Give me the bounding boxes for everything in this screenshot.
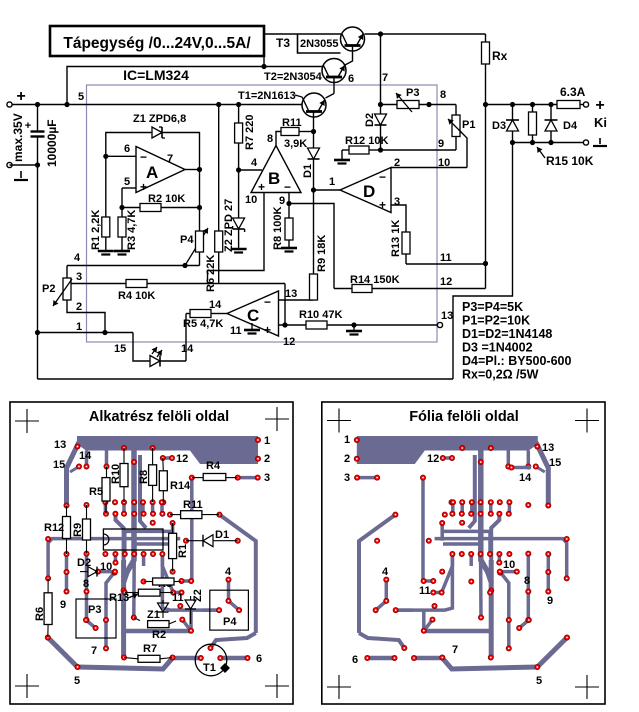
component R11: [170, 499, 219, 519]
right trace R9 bottom: [527, 554, 531, 620]
diode D2: [364, 102, 387, 150]
label 4 right: [382, 566, 389, 578]
component R13: [109, 589, 173, 604]
svg-text:+: +: [595, 97, 604, 114]
component R9: [72, 505, 91, 554]
left trace T1 right to pad6: [220, 656, 247, 661]
left trace mid cluster a: [104, 502, 108, 514]
svg-text:1: 1: [264, 435, 270, 447]
svg-text:1: 1: [76, 321, 82, 333]
left trace ic row link: [114, 554, 118, 563]
terminal 13: [437, 310, 453, 328]
transistor T3 2N3055: [341, 27, 365, 51]
svg-text:D1=D2=1N4148: D1=D2=1N4148: [462, 327, 552, 341]
potentiometer P1: [448, 105, 475, 151]
label 15 right: [549, 457, 561, 469]
right trace P4 left: [396, 608, 413, 612]
right trace pad15 link: [536, 467, 545, 473]
label pin 7: [167, 153, 173, 165]
label 10 right: [503, 559, 515, 571]
crosshair mark: [575, 409, 599, 433]
svg-text:−: −: [284, 180, 291, 194]
svg-text:8: 8: [267, 133, 273, 145]
label pin 5: [124, 176, 130, 188]
right board copper mirrored: [354, 436, 569, 670]
svg-text:R10 47K: R10 47K: [299, 309, 342, 321]
svg-text:T1: T1: [203, 662, 216, 674]
label 2 left: [264, 453, 270, 465]
svg-text:D2: D2: [364, 113, 376, 127]
component D1: [186, 529, 238, 547]
right trace pad12 link: [443, 456, 452, 460]
label 5 right: [536, 675, 542, 687]
left trace pad14 stub: [85, 451, 89, 467]
svg-text:14: 14: [79, 450, 92, 462]
label pin 14 pcb: [181, 343, 194, 355]
svg-text:15: 15: [114, 343, 126, 355]
label 12 right: [427, 453, 439, 465]
resistor R10 47K: [279, 309, 438, 335]
svg-text:A: A: [146, 163, 158, 182]
right trace bus slant to R12: [536, 442, 549, 506]
wire node5: [122, 188, 136, 208]
svg-text:R4 10K: R4 10K: [118, 290, 155, 302]
component Z2: [185, 589, 204, 624]
left trace Z1 column: [162, 554, 219, 610]
left trace mid cluster b: [122, 502, 126, 514]
wire output minus line: [510, 140, 584, 145]
svg-text:4: 4: [225, 566, 232, 578]
left trace R5 top stub: [105, 451, 109, 467]
label 5 left: [74, 675, 80, 687]
potentiometer P2: [42, 266, 72, 307]
left PCB board outline: [10, 402, 293, 704]
label pin 8: [267, 133, 273, 145]
svg-text:2: 2: [76, 301, 82, 313]
wire T1 emitter to T2 base: [326, 94, 335, 99]
svg-text:1: 1: [329, 176, 335, 188]
svg-text:2: 2: [264, 453, 270, 465]
component Z1: [147, 600, 169, 621]
left trace 11 pads: [173, 591, 181, 595]
right trace R2 right col: [424, 620, 433, 631]
label 1 right: [344, 434, 350, 446]
svg-text:3: 3: [394, 196, 400, 208]
label 1 left: [264, 435, 270, 447]
svg-text:15: 15: [549, 457, 561, 469]
op-amp A: [136, 147, 185, 195]
wire T3 emitter to Rx rail: [365, 33, 486, 35]
node 5 riser: [64, 102, 69, 107]
right trace R11 diagonal: [359, 515, 395, 633]
left trace top bus bar: [77, 436, 258, 464]
left trace R3 right: [182, 579, 192, 583]
svg-text:P4: P4: [223, 616, 237, 628]
left trace bottom rail: [78, 658, 173, 669]
svg-text:14: 14: [519, 472, 532, 484]
right trace R4 left vertical: [421, 478, 425, 581]
wire pin9: [286, 193, 291, 207]
svg-text:3: 3: [344, 472, 350, 484]
resistor R9 18K: [310, 190, 329, 300]
svg-text:3,9K: 3,9K: [284, 138, 307, 150]
right trace pad14 link: [509, 465, 531, 470]
label T2=2N3054: [264, 71, 323, 83]
svg-text:11: 11: [419, 585, 431, 597]
svg-text:R5 4,7K: R5 4,7K: [183, 318, 223, 330]
wire to R5: [185, 314, 187, 362]
svg-text:D3 =1N4002: D3 =1N4002: [462, 341, 533, 355]
label pin 8 pcb: [440, 89, 446, 101]
svg-text:−: −: [264, 295, 271, 309]
wire sense vertical: [483, 105, 488, 289]
svg-text:10: 10: [245, 194, 257, 206]
resistor R11 3,9K: [276, 117, 316, 150]
wire pin2 net10: [391, 167, 467, 169]
label pin 9 pcb: [438, 138, 444, 150]
right trace ic row link: [498, 554, 502, 563]
svg-text:6: 6: [348, 73, 354, 85]
right trace D2 link: [500, 570, 517, 574]
svg-text:−: −: [379, 170, 386, 184]
resistor R7 220: [235, 102, 256, 170]
label 14 right: [519, 472, 532, 484]
svg-text:10: 10: [503, 559, 515, 571]
right trace mid cluster d: [460, 502, 464, 514]
wire T3 base to T2: [345, 46, 353, 65]
capacitor C1 10000uF: [25, 105, 45, 166]
label 13 right: [542, 442, 554, 454]
label 3 left: [264, 472, 270, 484]
left trace R11 diagonal: [219, 515, 255, 633]
wire node6: [103, 154, 136, 159]
svg-text:7: 7: [452, 644, 458, 656]
left trace ic row link3: [142, 554, 146, 566]
op-amp D: [340, 168, 391, 213]
left trace bundle B1: [48, 539, 180, 579]
wire pin4 B: [236, 167, 262, 172]
left trace blob horizontal: [124, 629, 191, 634]
component R14: [159, 458, 191, 502]
right trace R4 right link: [357, 476, 377, 480]
svg-text:8: 8: [83, 578, 89, 590]
wire net12: [334, 288, 486, 290]
node D output: [311, 187, 316, 192]
right trace R5 top stub: [507, 451, 511, 467]
component R2: [134, 618, 176, 642]
label 3 right: [344, 472, 350, 484]
svg-text:R14 150K: R14 150K: [350, 274, 400, 286]
left trace main vertical: [121, 560, 126, 658]
wire LED branch: [133, 333, 150, 362]
svg-text:Rx=0,2Ω /5W: Rx=0,2Ω /5W: [462, 368, 539, 382]
right trace ic row link3: [469, 554, 473, 566]
left trace R12 R9 column: [65, 554, 69, 592]
resistor R1 2,2K: [90, 156, 114, 254]
right trace bundle B1: [435, 539, 567, 579]
svg-text:12: 12: [440, 276, 452, 288]
svg-text:R3 4,7K: R3 4,7K: [126, 210, 138, 250]
svg-text:Z2 ZPD 27: Z2 ZPD 27: [223, 199, 235, 252]
label 6 right: [352, 654, 358, 666]
label 4 left: [225, 566, 232, 578]
label 10000uF: [45, 119, 59, 167]
right trace ic row link4: [442, 554, 453, 593]
wire net13 summing: [279, 299, 314, 301]
svg-text:13: 13: [54, 439, 66, 451]
wire T3 collector link: [261, 34, 341, 69]
right trace big feed: [481, 451, 491, 583]
svg-text:T2=2N3054: T2=2N3054: [264, 71, 323, 83]
crosshair mark: [327, 675, 351, 699]
svg-text:3: 3: [76, 271, 82, 283]
svg-text:+: +: [264, 323, 271, 337]
svg-text:R12 10K: R12 10K: [345, 135, 388, 147]
transistor T1 2N1613: [302, 93, 326, 117]
right trace bundle B3: [443, 544, 481, 554]
potentiometer P4: [180, 231, 204, 266]
potentiometer P3: [381, 87, 457, 112]
left trace P4 left: [202, 608, 219, 612]
svg-text:R5: R5: [89, 486, 103, 498]
svg-text:+: +: [258, 180, 265, 194]
wire net2: [67, 300, 105, 333]
svg-text:10: 10: [100, 561, 112, 573]
left trace T1 top bend: [211, 633, 256, 648]
resistor R14 150K: [350, 274, 400, 293]
svg-text:4: 4: [251, 157, 258, 169]
component R6: [34, 578, 52, 637]
svg-text:3: 3: [264, 472, 270, 484]
svg-text:R8 100K: R8 100K: [272, 207, 284, 250]
label pin 12: [283, 336, 295, 348]
svg-text:D1: D1: [215, 529, 229, 541]
label pin 6: [124, 143, 130, 155]
wire pin3: [391, 205, 406, 232]
svg-text:R13 1K: R13 1K: [390, 220, 402, 257]
svg-text:6: 6: [124, 143, 130, 155]
left trace bundle B2: [125, 531, 172, 554]
left trace bundle B3: [134, 544, 172, 554]
svg-text:T1=2N1613: T1=2N1613: [238, 90, 296, 102]
right trace mid cluster a: [508, 502, 512, 514]
label pin 1: [329, 176, 335, 188]
right trace main vertical: [489, 560, 494, 658]
wire 7 vertical: [380, 34, 382, 105]
svg-text:R6: R6: [34, 607, 46, 621]
svg-text:14: 14: [181, 343, 194, 355]
left trace ic row link2: [132, 554, 136, 618]
svg-text:11: 11: [230, 325, 242, 337]
left trace pad15 link: [70, 467, 79, 473]
wire T1 base down: [313, 112, 315, 132]
left trace D2 link: [98, 570, 115, 574]
svg-text:7: 7: [382, 72, 388, 84]
crosshair mark: [15, 409, 39, 433]
svg-text:−: −: [140, 150, 147, 164]
svg-text:Ki: Ki: [594, 115, 607, 130]
label 9 left: [60, 599, 66, 611]
left trace 10 column: [106, 572, 115, 649]
wire minus vertical: [37, 165, 39, 379]
wire summing riser: [282, 284, 287, 328]
resistor R13 1K: [390, 220, 410, 264]
svg-text:B: B: [268, 169, 280, 188]
svg-text:R10: R10: [110, 464, 122, 484]
resistor R6 22K: [205, 102, 223, 292]
svg-text:6: 6: [256, 653, 262, 665]
wire pin10 jog: [208, 193, 265, 284]
svg-text:13: 13: [542, 442, 554, 454]
output terminal plus: [595, 97, 604, 114]
svg-text:max.35V: max.35V: [11, 113, 25, 162]
svg-text:Fólia felöli oldal: Fólia felöli oldal: [409, 409, 519, 425]
label 7 right: [452, 644, 458, 656]
node 7 drop: [378, 31, 383, 36]
svg-text:P3=P4=5K: P3=P4=5K: [462, 300, 523, 314]
right trace 10 column: [500, 572, 509, 649]
label pin 10: [245, 194, 257, 206]
crosshair mark: [15, 674, 39, 698]
svg-text:R12: R12: [44, 522, 64, 534]
left trace P4 inner: [229, 580, 240, 611]
left trace R7 to T1: [173, 656, 201, 661]
wire net3 long: [71, 283, 286, 285]
resistor R3 4,7K: [114, 208, 138, 255]
right trace mid cluster e: [451, 502, 455, 514]
svg-text:+: +: [379, 198, 386, 212]
right trace bundle B2: [443, 531, 490, 554]
wire input plus rail: [12, 104, 302, 106]
left trace R4 right link: [238, 476, 258, 480]
svg-text:6: 6: [352, 654, 358, 666]
resistor R12 10K: [334, 135, 388, 164]
svg-text:R7: R7: [143, 643, 157, 655]
label pin 10 pcb: [438, 157, 450, 169]
label max.35V: [11, 113, 25, 162]
component T1 outline: [195, 644, 230, 676]
component P3 box: [76, 599, 116, 638]
svg-text:12: 12: [283, 336, 295, 348]
node cap plus: [35, 102, 40, 107]
transistor T2 2N3054: [322, 59, 346, 83]
svg-text:5: 5: [74, 675, 80, 687]
label pin 13: [285, 288, 297, 300]
label pin 11 pcb: [440, 252, 452, 264]
left trace R1 col: [171, 523, 175, 541]
svg-text:R1: R1: [177, 544, 189, 558]
svg-text:11: 11: [172, 592, 184, 604]
left trace feed branch: [140, 455, 146, 528]
fuse 6.3A: [557, 85, 589, 109]
label pin 11 gnd: [230, 323, 260, 337]
right trace P3 inner diag: [519, 620, 529, 628]
svg-text:2N3055: 2N3055: [300, 38, 339, 50]
schematic power supply: [7, 26, 607, 382]
svg-text:R8: R8: [138, 470, 150, 484]
svg-text:R11: R11: [183, 499, 203, 511]
left trace bus slant to R12: [67, 442, 80, 506]
left trace R6 net: [48, 638, 78, 668]
left solder pads: [45, 437, 260, 669]
wire A output: [185, 167, 202, 231]
wire T2 base down: [333, 78, 335, 94]
crosshair mark: [327, 409, 351, 433]
wire net4: [67, 265, 200, 267]
svg-text:R15 10K: R15 10K: [546, 154, 594, 168]
svg-text:R9: R9: [72, 523, 84, 537]
right trace mid cluster c: [470, 502, 474, 514]
svg-text:8: 8: [524, 575, 530, 587]
notes text: [462, 300, 571, 382]
left trace mid cluster d: [151, 502, 155, 514]
svg-text:12: 12: [427, 453, 439, 465]
label pin 2 pcb: [76, 301, 82, 313]
wire Z1 to output node: [162, 133, 200, 170]
label 9 right: [547, 595, 553, 607]
component R1: [169, 523, 189, 572]
label pin 7: [382, 72, 388, 84]
right trace R12 R9 column: [547, 554, 551, 592]
right PCB board outline: [322, 402, 605, 704]
svg-text:P4: P4: [180, 234, 194, 246]
zener Z2 ZPD27: [223, 170, 247, 253]
svg-text:+: +: [16, 88, 25, 105]
wire output rail: [483, 102, 557, 107]
svg-text:8: 8: [440, 89, 446, 101]
left trace mid cluster e: [160, 502, 164, 514]
svg-text:Rx: Rx: [492, 49, 508, 63]
right trace R3 right: [424, 579, 434, 583]
svg-text:P3: P3: [406, 87, 419, 99]
svg-text:T3: T3: [276, 36, 290, 50]
wire Z1 loop: [106, 133, 152, 157]
component D2: [77, 557, 112, 577]
label 11 left: [172, 592, 184, 604]
svg-text:Z1 ZPD6,8: Z1 ZPD6,8: [133, 113, 186, 125]
svg-text:5: 5: [78, 91, 84, 103]
diode D4: [545, 105, 578, 143]
right trace feed branch: [469, 455, 475, 528]
label Ki: [594, 115, 607, 130]
component P4 box: [210, 590, 249, 630]
label T1=2N1613: [238, 90, 304, 102]
label IC=LM324: [123, 67, 189, 83]
op-amp C: [227, 291, 279, 337]
input terminal minus: [7, 162, 28, 180]
svg-text:P2: P2: [42, 283, 55, 295]
output terminal minus: [583, 138, 607, 146]
svg-text:Tápegység /0...24V,0...5A/: Tápegység /0...24V,0...5A/: [63, 35, 251, 52]
resistor R8 100K: [272, 204, 297, 252]
LED front panel: [150, 347, 186, 367]
svg-text:D4=Pl.: BY500-600: D4=Pl.: BY500-600: [462, 354, 571, 368]
label pin 1 pcb: [76, 321, 82, 333]
svg-text:R1 2,2K: R1 2,2K: [90, 210, 102, 250]
svg-text:9: 9: [547, 595, 553, 607]
right trace ic row link2: [479, 554, 483, 618]
svg-text:R14: R14: [170, 480, 191, 492]
left board title: [89, 409, 229, 425]
label 12 left: [176, 453, 188, 465]
svg-text:R11: R11: [282, 117, 302, 129]
label 11 right: [419, 585, 431, 597]
diode D1: [302, 132, 320, 191]
label 13 left: [54, 439, 66, 451]
right trace R1 col: [440, 523, 444, 541]
svg-text:R13: R13: [109, 592, 129, 604]
left trace P3 inner diag: [86, 620, 96, 628]
